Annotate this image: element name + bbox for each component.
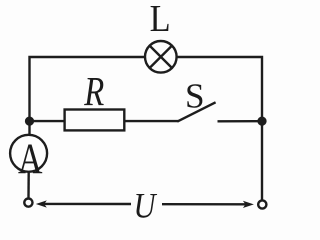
svg-text:A: A [18, 136, 43, 183]
svg-text:S: S [185, 76, 205, 115]
svg-text:L: L [150, 0, 171, 40]
svg-text:R: R [84, 68, 105, 114]
svg-text:U: U [134, 185, 158, 221]
